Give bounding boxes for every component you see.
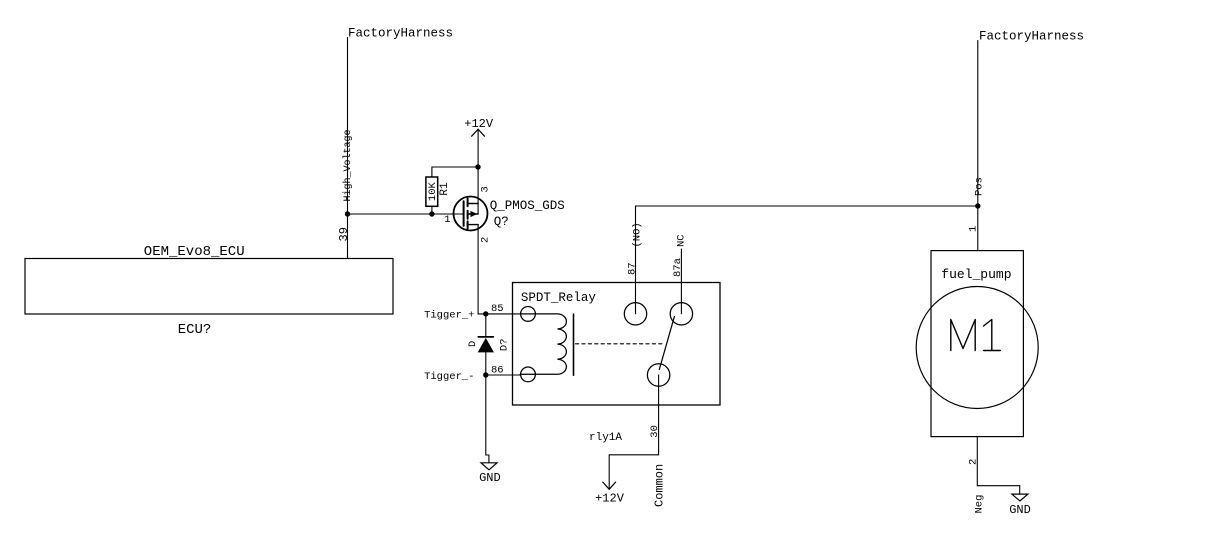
svg-text:R1: R1 bbox=[439, 182, 451, 196]
diode D? cathode bar bbox=[478, 336, 493, 338]
node junction at Pos bbox=[975, 203, 980, 208]
wire Tigger_+ horizontal to relay pin 85 bbox=[478, 313, 520, 315]
transistor Q1 channel dashes bbox=[467, 199, 469, 229]
node junction at High_Voltage wire and gate wire bbox=[345, 211, 350, 216]
svg-text:OEM_Evo8_ECU: OEM_Evo8_ECU bbox=[144, 244, 245, 260]
svg-text:3: 3 bbox=[480, 186, 492, 192]
wire Tigger_- down to ground bbox=[486, 375, 489, 463]
ground symbol GND (right) bbox=[1012, 494, 1028, 501]
svg-text:rly1A: rly1A bbox=[589, 432, 622, 444]
svg-text:Common: Common bbox=[653, 464, 667, 507]
relay pin 85 circle bbox=[521, 307, 536, 322]
motor fuel_pump body box bbox=[931, 251, 1023, 437]
svg-text:87a: 87a bbox=[672, 258, 684, 277]
node junction at diode anode bbox=[483, 372, 488, 377]
wire +12V down to transistor drain bbox=[477, 129, 479, 214]
wire R1 bottom stub bbox=[431, 206, 433, 214]
motor M1 circle bbox=[916, 287, 1038, 409]
transistor Q1 gate bar bbox=[463, 201, 465, 226]
relay actuator dashed line bbox=[576, 343, 665, 345]
power symbol +12V (top) bbox=[472, 129, 485, 136]
node junction at +12V rail and R1 bbox=[475, 164, 480, 169]
wire R1 top to +12V rail bbox=[432, 167, 478, 177]
svg-text:NC: NC bbox=[676, 234, 688, 247]
svg-text:2: 2 bbox=[968, 459, 980, 465]
svg-text:D?: D? bbox=[498, 338, 510, 351]
svg-text:ECU?: ECU? bbox=[178, 322, 212, 338]
resistor R1 body bbox=[426, 177, 438, 206]
wire relay pin 87 up bbox=[635, 206, 637, 314]
wire transistor drain down to Tigger_+ bbox=[477, 225, 479, 314]
transistor Q1 drain contact bbox=[468, 224, 479, 226]
svg-text:30: 30 bbox=[649, 425, 661, 438]
svg-text:GND: GND bbox=[1009, 503, 1031, 517]
svg-text:85: 85 bbox=[491, 303, 504, 315]
diode D? triangle bbox=[478, 338, 494, 353]
svg-text:+12V: +12V bbox=[595, 492, 625, 506]
wire FactoryHarness left vertical to ECU bbox=[347, 38, 349, 259]
svg-text:GND: GND bbox=[479, 471, 501, 485]
relay pin 87 circle bbox=[624, 303, 646, 325]
svg-text:Q?: Q? bbox=[494, 215, 509, 229]
relay K1 body box bbox=[513, 283, 721, 406]
wire gate horizontal bbox=[348, 213, 464, 215]
relay coil core bar bbox=[573, 314, 575, 375]
svg-text:Tigger_+: Tigger_+ bbox=[424, 310, 474, 322]
svg-text:(NO): (NO) bbox=[632, 222, 644, 247]
svg-text:Q_PMOS_GDS: Q_PMOS_GDS bbox=[490, 199, 565, 213]
svg-text:1: 1 bbox=[968, 226, 980, 232]
wire NO to fuel pump Pos bbox=[636, 205, 978, 207]
svg-text:Pos: Pos bbox=[973, 177, 985, 196]
relay coil bbox=[520, 314, 566, 374]
svg-text:FactoryHarness: FactoryHarness bbox=[348, 26, 453, 40]
relay switch arm bbox=[659, 317, 674, 370]
wire relay pin 30 down to +12V bbox=[609, 375, 658, 489]
relay pin 30 circle bbox=[647, 364, 669, 386]
svg-text:Neg: Neg bbox=[974, 495, 986, 514]
wire diode cathode stub bbox=[485, 314, 487, 337]
svg-text:39: 39 bbox=[337, 227, 351, 241]
node junction at resistor R1 bottom bbox=[429, 211, 434, 216]
sheet OEM_Evo8_ECU box bbox=[25, 259, 393, 315]
svg-text:Tigger_-: Tigger_- bbox=[424, 371, 474, 383]
svg-text:+12V: +12V bbox=[464, 117, 494, 131]
transistor Q1 substrate arrow bbox=[471, 211, 478, 217]
svg-text:FactoryHarness: FactoryHarness bbox=[979, 30, 1084, 44]
svg-text:SPDT_Relay: SPDT_Relay bbox=[521, 291, 597, 305]
svg-text:2: 2 bbox=[480, 237, 492, 243]
relay pin 86 circle bbox=[521, 367, 536, 382]
svg-text:fuel_pump: fuel_pump bbox=[941, 267, 1011, 282]
svg-text:High_Voltage: High_Voltage bbox=[342, 129, 354, 201]
power symbol +12V (bottom, arrow down) bbox=[603, 482, 616, 489]
svg-text:D: D bbox=[467, 341, 479, 347]
node junction at diode cathode bbox=[483, 311, 488, 316]
relay pin 87a circle bbox=[670, 303, 692, 325]
transistor Q1 source contact bbox=[468, 203, 479, 205]
wire FactoryHarness right vertical to fuel pump bbox=[977, 41, 979, 251]
svg-text:10K: 10K bbox=[427, 181, 439, 201]
wire Tigger_- horizontal to relay pin 86 bbox=[486, 374, 521, 376]
svg-text:1: 1 bbox=[444, 214, 450, 226]
ground symbol GND (left) bbox=[481, 463, 497, 470]
wire fuel pump Neg to ground bbox=[977, 437, 1019, 495]
reference label M1 (drawn strokes) bbox=[951, 320, 1001, 351]
transistor Q1 substrate line bbox=[468, 213, 479, 215]
wire relay pin 87a stub bbox=[680, 249, 682, 314]
wire diode anode stub bbox=[485, 352, 487, 375]
svg-text:87: 87 bbox=[627, 262, 639, 275]
transistor Q1 body circle bbox=[454, 197, 488, 231]
